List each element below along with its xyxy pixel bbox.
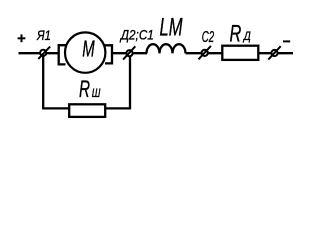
svg-text:Я1: Я1 (36, 27, 51, 43)
svg-text:M: M (82, 36, 95, 62)
svg-text:Д2;С1: Д2;С1 (119, 27, 154, 43)
svg-text:R: R (230, 20, 242, 47)
svg-text:С2: С2 (202, 29, 214, 46)
svg-text:LM: LM (160, 14, 183, 42)
svg-text:Ш: Ш (92, 86, 101, 100)
svg-text:Д: Д (242, 29, 251, 43)
svg-text:R: R (79, 76, 90, 103)
